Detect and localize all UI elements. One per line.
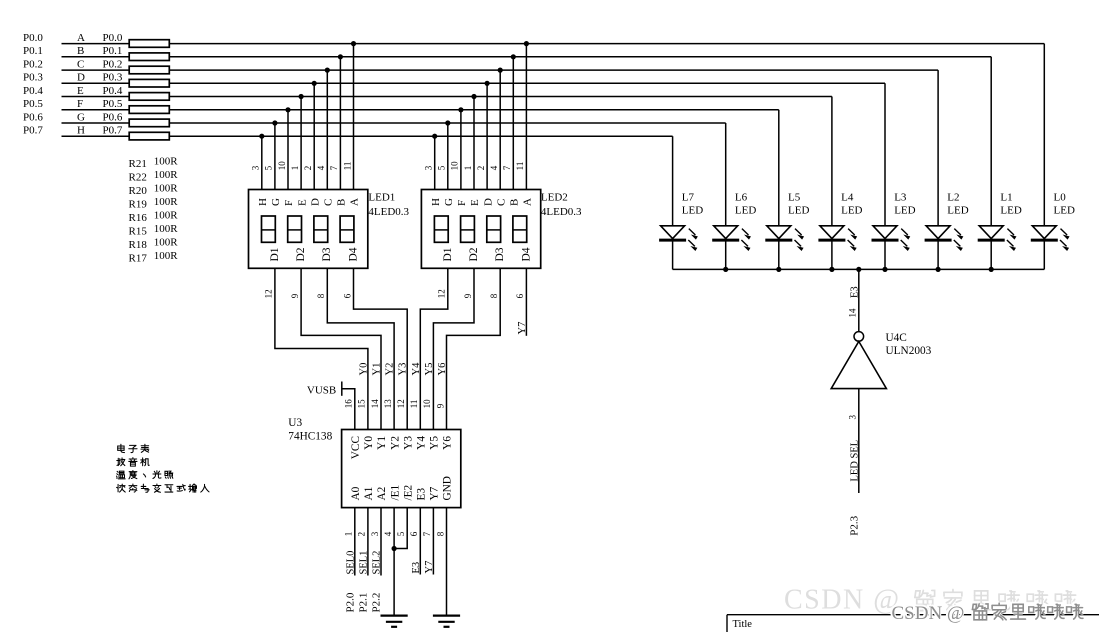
svg-text:CSDN @: CSDN @ bbox=[784, 585, 900, 616]
wire tap LED1 pin 5 bbox=[274, 123, 276, 190]
wire U3 pin 8 GND to ground bbox=[446, 508, 448, 616]
resistor R22 body bbox=[129, 53, 169, 61]
svg-text:R19: R19 bbox=[129, 198, 148, 210]
svg-text:L2: L2 bbox=[947, 191, 959, 203]
svg-text:E: E bbox=[469, 199, 481, 206]
svg-text:P0.3: P0.3 bbox=[23, 72, 43, 84]
LED2 digit D3 cell bbox=[487, 216, 501, 242]
svg-text:Y1: Y1 bbox=[376, 436, 388, 450]
wire tap LED2 pin 11 bbox=[525, 44, 527, 190]
buffer U4C triangle bbox=[831, 341, 886, 388]
LED1 digit D1 cell bbox=[262, 216, 276, 242]
svg-text:LED: LED bbox=[788, 205, 809, 217]
svg-text:15: 15 bbox=[357, 399, 367, 409]
svg-text:11: 11 bbox=[342, 162, 352, 171]
wire tap LED2 pin 5 bbox=[447, 123, 449, 190]
svg-text:L1: L1 bbox=[1000, 191, 1012, 203]
junction /E1 /E2 bbox=[392, 546, 397, 551]
wire bus to LED L3 bbox=[884, 83, 886, 226]
wire U4C output bbox=[858, 389, 860, 493]
svg-text:LED: LED bbox=[1000, 205, 1021, 217]
wire tap LED1 pin 4 bbox=[326, 70, 328, 189]
wire LED1 pin 9 to U3 Y1 bbox=[301, 268, 381, 429]
wire bus to LED L7 bbox=[672, 136, 674, 226]
svg-text:10: 10 bbox=[277, 161, 287, 171]
wire bus to LED L5 bbox=[778, 110, 780, 226]
svg-text:LED2: LED2 bbox=[541, 191, 568, 203]
wire U3 pin 7 net Y7 bbox=[432, 508, 434, 575]
svg-text:/E2: /E2 bbox=[402, 484, 414, 500]
svg-text:R18: R18 bbox=[129, 239, 148, 251]
wire tap LED2 pin 10 bbox=[460, 110, 462, 190]
svg-text:6: 6 bbox=[409, 531, 419, 536]
svg-text:P0.0: P0.0 bbox=[103, 32, 123, 44]
svg-text:P0.6: P0.6 bbox=[103, 111, 123, 123]
svg-text:Y0: Y0 bbox=[363, 436, 375, 450]
junction LED2 C bbox=[498, 68, 503, 73]
wire LED2 pin 9 to U3 Y5 bbox=[433, 268, 474, 429]
LED1 digit D3 cell bbox=[314, 216, 328, 242]
svg-text:Y4: Y4 bbox=[416, 436, 428, 450]
resistor R19 body bbox=[129, 79, 169, 87]
LED2 digit D2 cell bbox=[461, 216, 475, 242]
svg-text:E: E bbox=[77, 85, 84, 97]
svg-text:A: A bbox=[522, 198, 534, 206]
svg-text:74HC138: 74HC138 bbox=[288, 431, 332, 443]
svg-text:12: 12 bbox=[396, 399, 406, 408]
svg-text:P0.2: P0.2 bbox=[23, 59, 43, 71]
svg-text:A0: A0 bbox=[350, 486, 362, 500]
svg-text:2: 2 bbox=[357, 532, 367, 537]
svg-text:GND: GND bbox=[442, 476, 454, 500]
svg-text:E3: E3 bbox=[849, 286, 860, 298]
junction LED2 A bbox=[524, 41, 529, 46]
svg-text:P0.7: P0.7 bbox=[103, 125, 123, 137]
svg-text:A: A bbox=[77, 32, 85, 44]
wire tap LED1 pin 10 bbox=[287, 110, 289, 190]
svg-text:P0.1: P0.1 bbox=[23, 45, 43, 57]
svg-text:E3: E3 bbox=[416, 488, 428, 501]
svg-text:H: H bbox=[430, 198, 442, 206]
wire P0.0 bus bbox=[62, 43, 130, 45]
junction rail bbox=[882, 267, 887, 272]
svg-text:F: F bbox=[456, 200, 468, 206]
svg-text:R17: R17 bbox=[129, 252, 148, 264]
junction LED2 H bbox=[432, 134, 437, 139]
wire bus to LED L0 bbox=[1043, 44, 1045, 226]
svg-text:L5: L5 bbox=[788, 191, 801, 203]
svg-text:5: 5 bbox=[264, 165, 274, 170]
led L7 symbol bbox=[659, 226, 697, 270]
svg-text:P0.5: P0.5 bbox=[103, 98, 123, 110]
junction rail bbox=[776, 267, 781, 272]
svg-text:VCC: VCC bbox=[350, 436, 362, 459]
svg-text:11: 11 bbox=[515, 162, 525, 171]
svg-text:Y0: Y0 bbox=[358, 363, 369, 376]
svg-text:Y3: Y3 bbox=[398, 363, 409, 376]
svg-text:H: H bbox=[257, 198, 269, 206]
wire tap LED1 pin 3 bbox=[261, 136, 263, 189]
wire tap LED2 pin 4 bbox=[499, 70, 501, 189]
svg-text:/E1: /E1 bbox=[389, 485, 401, 501]
svg-text:P0.1: P0.1 bbox=[103, 45, 123, 57]
junction LED2 B bbox=[511, 54, 516, 59]
svg-text:12: 12 bbox=[437, 289, 447, 298]
svg-text:100R: 100R bbox=[154, 156, 179, 168]
svg-text:R15: R15 bbox=[129, 225, 148, 237]
junction LED1 B bbox=[338, 54, 343, 59]
svg-text:F: F bbox=[283, 200, 295, 206]
led L5 symbol bbox=[765, 226, 803, 270]
junction LED2 G bbox=[445, 120, 450, 125]
svg-text:L4: L4 bbox=[841, 191, 854, 203]
VUSB stub tick bbox=[341, 382, 343, 396]
svg-text:5: 5 bbox=[396, 531, 406, 536]
wire LED2 pin 8 to U3 Y6 bbox=[447, 268, 501, 429]
junction LED1 A bbox=[351, 41, 356, 46]
svg-text:1: 1 bbox=[463, 166, 473, 171]
svg-text:H: H bbox=[77, 125, 85, 137]
wire U3 pin 5 /E2 join bbox=[394, 508, 407, 549]
svg-text:CSDN @: CSDN @ bbox=[892, 603, 965, 624]
svg-text:LED1: LED1 bbox=[368, 191, 395, 203]
svg-text:8: 8 bbox=[316, 293, 326, 298]
svg-text:4: 4 bbox=[316, 165, 326, 170]
svg-text:13: 13 bbox=[383, 399, 393, 409]
svg-text:P0.2: P0.2 bbox=[103, 59, 123, 71]
wire tap LED1 pin 11 bbox=[353, 44, 355, 190]
svg-text:C: C bbox=[77, 59, 84, 71]
svg-text:P0.0: P0.0 bbox=[23, 32, 43, 44]
svg-text:B: B bbox=[509, 199, 521, 206]
wire tap LED2 pin 2 bbox=[486, 83, 488, 189]
svg-text:Y3: Y3 bbox=[402, 436, 414, 450]
svg-text:P2.3: P2.3 bbox=[848, 515, 860, 535]
ground symbol GND1 bbox=[381, 616, 408, 627]
svg-text:100R: 100R bbox=[154, 237, 179, 249]
svg-text:4LED0.3: 4LED0.3 bbox=[368, 206, 409, 218]
svg-text:D: D bbox=[77, 72, 85, 84]
svg-text:G: G bbox=[443, 198, 455, 206]
svg-text:3: 3 bbox=[424, 165, 434, 170]
svg-text:D4: D4 bbox=[347, 247, 359, 261]
svg-text:U3: U3 bbox=[288, 417, 302, 429]
svg-text:D: D bbox=[482, 198, 494, 206]
junction LED2 D bbox=[485, 81, 490, 86]
led L3 symbol bbox=[872, 226, 910, 270]
svg-text:14: 14 bbox=[370, 399, 380, 409]
svg-text:3: 3 bbox=[848, 415, 858, 420]
wire LED1 pin 12 to U3 Y0 bbox=[275, 268, 368, 429]
svg-text:ULN2003: ULN2003 bbox=[886, 345, 932, 357]
svg-text:Title: Title bbox=[733, 619, 753, 630]
wire U3 pin 2 net SEL1 bbox=[367, 508, 369, 576]
wire P0.4 bus bbox=[62, 96, 130, 98]
svg-text:SEL2: SEL2 bbox=[372, 551, 383, 575]
svg-text:100R: 100R bbox=[154, 210, 179, 222]
svg-text:L6: L6 bbox=[735, 191, 748, 203]
svg-text:P0.7: P0.7 bbox=[23, 125, 43, 137]
resistor R16 body bbox=[129, 93, 169, 101]
svg-text:12: 12 bbox=[264, 289, 274, 298]
svg-text:6: 6 bbox=[342, 293, 352, 298]
ic U3 74HC138 outline bbox=[342, 430, 461, 508]
svg-text:100R: 100R bbox=[154, 183, 179, 195]
svg-text:4: 4 bbox=[383, 531, 393, 536]
wire VUSB to U3 VCC bbox=[342, 389, 355, 430]
wire P0.6 bus bbox=[62, 122, 130, 124]
svg-text:P2.1: P2.1 bbox=[357, 593, 369, 613]
svg-text:P0.5: P0.5 bbox=[23, 98, 43, 110]
LED1 digit D4 cell bbox=[340, 216, 354, 242]
junction LED1 F bbox=[285, 107, 290, 112]
wire bus to LED L4 bbox=[831, 97, 833, 226]
wire U3 pin 1 net SEL0 bbox=[354, 508, 356, 576]
svg-text:9: 9 bbox=[290, 293, 300, 298]
svg-text:3: 3 bbox=[251, 165, 261, 170]
svg-text:9: 9 bbox=[435, 403, 445, 408]
LED2 digit D4 cell bbox=[513, 216, 527, 242]
svg-text:5: 5 bbox=[437, 165, 447, 170]
svg-text:Y5: Y5 bbox=[424, 363, 435, 376]
junction LED1 G bbox=[272, 120, 277, 125]
svg-text:D: D bbox=[309, 198, 321, 206]
svg-text:6: 6 bbox=[515, 293, 525, 298]
svg-text:G: G bbox=[77, 111, 85, 123]
svg-text:P2.0: P2.0 bbox=[344, 592, 356, 612]
svg-text:P0.4: P0.4 bbox=[23, 85, 43, 97]
annotation chinese text block bbox=[118, 444, 125, 452]
svg-text:L7: L7 bbox=[682, 191, 695, 203]
wire P0.7 bus bbox=[62, 135, 130, 137]
junction LED1 D bbox=[312, 81, 317, 86]
svg-text:1: 1 bbox=[290, 166, 300, 171]
wire rail to U4C input bbox=[858, 269, 860, 331]
U4C inversion bubble bbox=[854, 332, 864, 342]
svg-text:Y7: Y7 bbox=[517, 322, 528, 335]
wire tap LED2 pin 7 bbox=[512, 57, 514, 190]
svg-text:2: 2 bbox=[303, 166, 313, 171]
junction rail bbox=[989, 267, 994, 272]
svg-text:Y5: Y5 bbox=[429, 436, 441, 450]
svg-text:L3: L3 bbox=[894, 191, 907, 203]
svg-text:D4: D4 bbox=[520, 247, 532, 261]
wire LED2 pin 6 net Y7 stub bbox=[525, 268, 527, 336]
svg-text:P0.4: P0.4 bbox=[103, 85, 123, 97]
ground symbol GND2 bbox=[433, 616, 460, 627]
svg-text:D1: D1 bbox=[442, 247, 454, 261]
wire P0.5 bus bbox=[62, 109, 130, 111]
svg-text:E: E bbox=[296, 199, 308, 206]
wire U3 pin 6 net E3 bbox=[419, 508, 421, 575]
junction rail bbox=[936, 267, 941, 272]
svg-text:100R: 100R bbox=[154, 196, 179, 208]
junction LED2 F bbox=[458, 107, 463, 112]
svg-text:B: B bbox=[336, 199, 348, 206]
LED2 digit D1 cell bbox=[434, 216, 448, 242]
led L0 symbol bbox=[1031, 226, 1069, 270]
wire bus to LED L1 bbox=[990, 57, 992, 226]
resistor R15 body bbox=[129, 106, 169, 114]
wire tap LED1 pin 7 bbox=[339, 57, 341, 190]
junction rail bbox=[829, 267, 834, 272]
wire bus to LED L2 bbox=[937, 70, 939, 226]
svg-text:Y4: Y4 bbox=[411, 362, 422, 376]
wire tap LED1 pin 2 bbox=[313, 83, 315, 189]
wire LED cathode rail bbox=[673, 268, 1045, 270]
wire LED1 pin 8 to U3 Y2 bbox=[327, 268, 394, 429]
svg-text:Y6: Y6 bbox=[437, 363, 448, 376]
svg-text:F: F bbox=[77, 98, 83, 110]
svg-text:10: 10 bbox=[422, 399, 432, 409]
display LED2 outline bbox=[421, 190, 540, 269]
svg-text:A1: A1 bbox=[363, 487, 375, 501]
wire P0.3 bus bbox=[62, 82, 130, 84]
svg-text:E3: E3 bbox=[411, 562, 422, 574]
svg-text:R21: R21 bbox=[129, 158, 147, 170]
svg-text:R16: R16 bbox=[129, 212, 148, 224]
svg-text:SEL0: SEL0 bbox=[345, 551, 356, 575]
led L4 symbol bbox=[818, 226, 856, 270]
svg-text:100R: 100R bbox=[154, 169, 179, 181]
resistor R18 body bbox=[129, 119, 169, 127]
svg-text:10: 10 bbox=[450, 161, 460, 171]
svg-text:1: 1 bbox=[344, 532, 354, 537]
svg-text:Y1: Y1 bbox=[372, 363, 383, 376]
svg-text:7: 7 bbox=[422, 531, 432, 536]
svg-text:100R: 100R bbox=[154, 223, 179, 235]
svg-text:A: A bbox=[349, 198, 361, 206]
display LED1 outline bbox=[249, 190, 368, 269]
svg-text:7: 7 bbox=[329, 165, 339, 170]
svg-text:3: 3 bbox=[370, 531, 380, 536]
title block border bbox=[727, 614, 1099, 616]
junction rail bbox=[723, 267, 728, 272]
svg-text:G: G bbox=[270, 198, 282, 206]
junction rail stem bbox=[856, 267, 861, 272]
led L2 symbol bbox=[925, 226, 963, 270]
LED1 digit D2 cell bbox=[288, 216, 302, 242]
wire U3 pin 4 /E1 to ground bbox=[393, 508, 395, 616]
svg-text:100R: 100R bbox=[154, 250, 179, 262]
wire tap LED1 pin 1 bbox=[300, 97, 302, 190]
svg-text:14: 14 bbox=[848, 308, 858, 318]
svg-text:R22: R22 bbox=[129, 171, 147, 183]
svg-text:P0.3: P0.3 bbox=[103, 72, 123, 84]
svg-text:LED: LED bbox=[947, 205, 968, 217]
svg-text:LED: LED bbox=[894, 205, 915, 217]
svg-text:Y2: Y2 bbox=[389, 436, 401, 450]
svg-text:4: 4 bbox=[489, 165, 499, 170]
svg-text:A2: A2 bbox=[376, 486, 388, 500]
svg-text:C: C bbox=[323, 199, 335, 206]
svg-text:Y6: Y6 bbox=[442, 436, 454, 450]
svg-text:VUSB: VUSB bbox=[307, 384, 336, 396]
led L6 symbol bbox=[712, 226, 750, 270]
svg-text:D3: D3 bbox=[321, 247, 333, 261]
svg-text:P0.6: P0.6 bbox=[23, 111, 43, 123]
wire tap LED2 pin 1 bbox=[473, 97, 475, 190]
wire tap LED2 pin 3 bbox=[434, 136, 436, 189]
wire LED1 pin 6 to U3 Y3 bbox=[354, 268, 408, 429]
wire P0.1 bus bbox=[62, 56, 130, 58]
svg-text:P2.2: P2.2 bbox=[371, 593, 383, 613]
svg-text:LED: LED bbox=[841, 205, 862, 217]
svg-text:Y7: Y7 bbox=[429, 486, 441, 500]
resistor R17 body bbox=[129, 132, 169, 140]
resistor R20 body bbox=[129, 66, 169, 74]
svg-text:SEL1: SEL1 bbox=[358, 551, 369, 575]
wire bus to LED L6 bbox=[725, 123, 727, 226]
wire U3 pin 3 net SEL2 bbox=[380, 508, 382, 576]
resistor R21 body bbox=[129, 40, 169, 48]
svg-text:2: 2 bbox=[476, 166, 486, 171]
svg-text:LED SEL: LED SEL bbox=[849, 440, 860, 482]
svg-text:4LED0.3: 4LED0.3 bbox=[541, 206, 582, 218]
junction LED2 E bbox=[471, 94, 476, 99]
svg-text:D2: D2 bbox=[468, 247, 480, 261]
svg-text:U4C: U4C bbox=[886, 332, 907, 344]
svg-text:8: 8 bbox=[435, 531, 445, 536]
svg-text:16: 16 bbox=[344, 399, 354, 409]
led L1 symbol bbox=[978, 226, 1016, 270]
svg-text:Y2: Y2 bbox=[385, 363, 396, 376]
svg-text:9: 9 bbox=[463, 293, 473, 298]
wire P0.2 bus bbox=[62, 69, 130, 71]
svg-text:D2: D2 bbox=[295, 247, 307, 261]
svg-text:B: B bbox=[77, 45, 84, 57]
svg-text:D1: D1 bbox=[269, 247, 281, 261]
svg-text:L0: L0 bbox=[1054, 191, 1067, 203]
svg-text:8: 8 bbox=[489, 293, 499, 298]
svg-text:R20: R20 bbox=[129, 185, 148, 197]
svg-text:D3: D3 bbox=[494, 247, 506, 261]
svg-text:LED: LED bbox=[682, 205, 703, 217]
svg-text:LED: LED bbox=[1054, 205, 1075, 217]
svg-text:11: 11 bbox=[409, 400, 419, 409]
svg-text:7: 7 bbox=[502, 165, 512, 170]
svg-text:C: C bbox=[495, 199, 507, 206]
wire LED2 pin 12 to U3 Y4 bbox=[420, 268, 448, 429]
junction LED1 C bbox=[325, 68, 330, 73]
svg-text:LED: LED bbox=[735, 205, 756, 217]
svg-text:Y7: Y7 bbox=[424, 561, 435, 574]
junction LED1 H bbox=[259, 134, 264, 139]
junction LED1 E bbox=[299, 94, 304, 99]
